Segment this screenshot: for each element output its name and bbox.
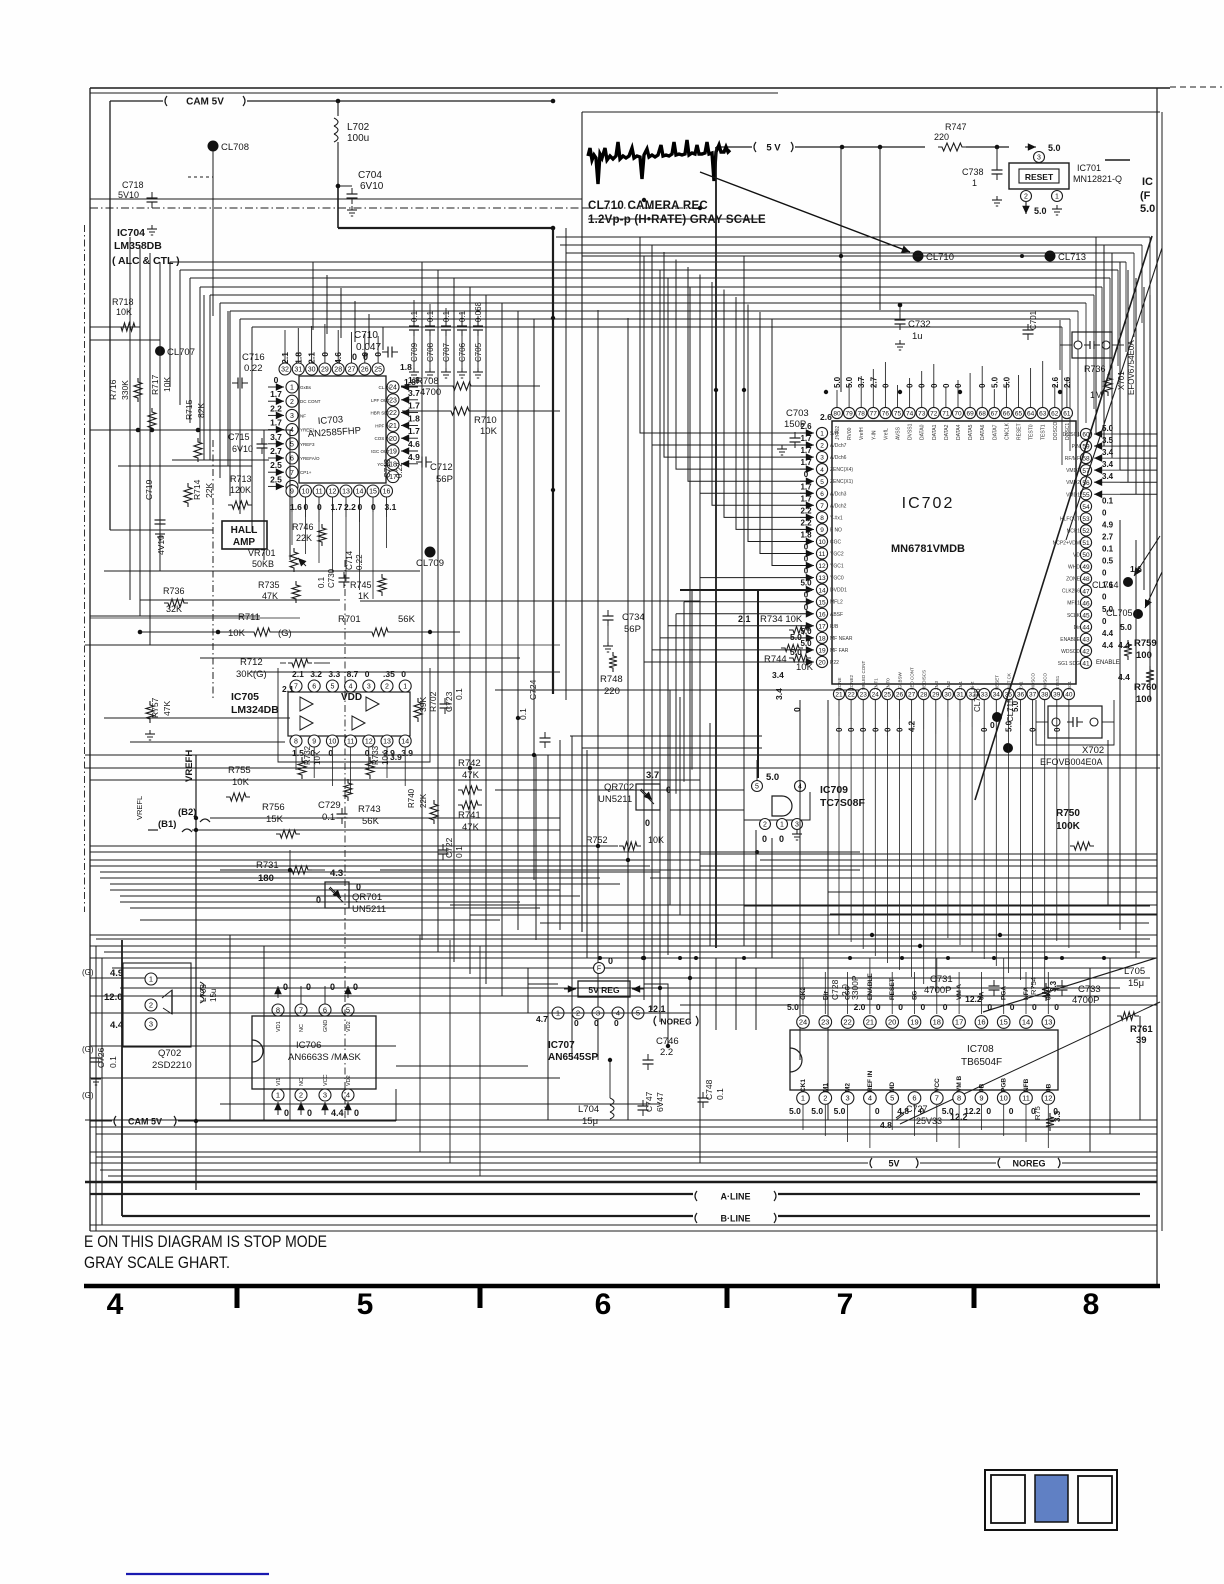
svg-text:5.0: 5.0 [1034,206,1047,216]
svg-text:0: 0 [358,502,363,512]
svg-text:3.4: 3.4 [1102,472,1114,481]
svg-text:C701: C701 [1029,310,1038,330]
svg-text:R711: R711 [238,612,260,623]
svg-text:0: 0 [804,555,809,564]
svg-text:56P: 56P [436,474,453,485]
resistor R748 [609,652,617,672]
IC U IC706 body [252,1016,376,1089]
svg-text:3.9: 3.9 [401,748,413,758]
svg-text:14: 14 [818,587,826,594]
svg-text:3.2: 3.2 [310,669,322,679]
wire IC702 bottom drops [838,716,840,935]
svg-text:IC705: IC705 [231,691,259,703]
svg-text:0B: 0B [1045,1083,1052,1092]
svg-text:2: 2 [385,684,389,691]
svg-text:12: 12 [818,563,826,570]
svg-text:25: 25 [374,367,382,374]
svg-text:3: 3 [149,1020,153,1029]
svg-text:A/Dch7: A/Dch7 [830,443,847,449]
svg-text:PGB: PGB [1001,1078,1008,1092]
svg-text:L702: L702 [347,122,370,133]
svg-text:120K: 120K [230,485,251,495]
svg-text:100u: 100u [347,133,369,144]
svg-text:0: 0 [942,383,951,388]
svg-text:0: 0 [898,1002,903,1012]
svg-text:2: 2 [290,399,294,406]
svg-text:55: 55 [1082,492,1090,499]
svg-text:VCC: VCC [323,1074,329,1086]
svg-text:4: 4 [820,467,824,474]
svg-text:VM A: VM A [956,984,963,1000]
svg-text:15μ: 15μ [582,1116,598,1127]
svg-text:VR701: VR701 [248,548,276,558]
svg-text:SG1: SG1 [1067,680,1072,690]
svg-text:67: 67 [991,411,999,418]
svg-text:CK1: CK1 [800,1079,807,1092]
svg-text:MF FAR: MF FAR [830,648,849,654]
svg-text:2: 2 [823,1094,827,1103]
svg-text:10K: 10K [480,426,498,437]
svg-text:1.8: 1.8 [400,362,412,372]
IC U IC708 body [790,1030,1058,1090]
capacitor C712 [421,457,423,468]
svg-text:0.1: 0.1 [426,310,435,322]
wire dash-dot rail [90,207,582,209]
svg-text:0: 0 [645,818,650,828]
wire x702 frame [1036,721,1048,723]
svg-text:2.1: 2.1 [292,669,304,679]
svg-text:-GLBSW: -GLBSW [898,671,903,690]
svg-text:DVDD1: DVDD1 [830,588,847,594]
svg-text:R734 10K: R734 10K [760,614,803,625]
svg-text:13: 13 [342,489,350,496]
svg-text:9: 9 [312,739,316,746]
svg-text:C712: C712 [430,462,453,473]
svg-text:C748: C748 [704,1079,714,1100]
svg-text:(F: (F [1140,190,1151,202]
svg-text:8.7: 8.7 [347,669,359,679]
svg-text:ZONE: ZONE [1066,577,1081,583]
svg-text:10K: 10K [232,777,250,788]
svg-text:C738: C738 [962,167,984,177]
svg-text:3.7: 3.7 [857,376,866,388]
svg-text:A/Dch3: A/Dch3 [830,491,847,497]
svg-text:19: 19 [910,1018,918,1027]
svg-text:4.6: 4.6 [408,439,420,449]
svg-text:0: 0 [875,1106,880,1116]
svg-text:C705: C705 [474,342,483,362]
svg-text:30K(G): 30K(G) [236,669,267,680]
svg-text:46: 46 [1082,600,1090,607]
svg-text:0: 0 [1102,617,1107,626]
svg-text:47: 47 [1082,588,1090,595]
footer blue underline [126,1573,269,1575]
wire center-mid rails [570,735,762,737]
svg-text:C710: C710 [354,330,378,341]
svg-text:0: 0 [365,669,370,679]
svg-text:3: 3 [367,684,371,691]
svg-text:52: 52 [1082,528,1090,535]
svg-text:16: 16 [383,489,391,496]
svg-text:4V10: 4V10 [156,535,166,555]
svg-text:MFL2: MFL2 [830,600,843,606]
svg-text:R712: R712 [240,657,263,668]
svg-text:3: 3 [795,822,799,829]
svg-text:53: 53 [1082,516,1090,523]
svg-text:5.0: 5.0 [787,1002,799,1012]
transistor Q702 [123,963,191,1047]
svg-text:DATA7: DATA7 [992,424,998,440]
svg-text:3: 3 [290,413,294,420]
svg-text:44: 44 [1082,624,1090,631]
IC U IC702 body [832,421,1076,684]
svg-text:7: 7 [290,470,294,477]
svg-text:17: 17 [955,1018,963,1027]
svg-text:AN2585FHP: AN2585FHP [307,425,361,440]
svg-text:2SD2210: 2SD2210 [152,1060,192,1071]
svg-text:LED CONT: LED CONT [910,667,915,690]
svg-text:MN12821-Q: MN12821-Q [1073,174,1122,184]
svg-text:REDISCS: REDISCS [922,670,927,690]
transistor QR702 [636,784,660,810]
svg-text:RESET: RESET [889,978,896,1000]
svg-text:13: 13 [383,739,391,746]
svg-text:0: 0 [986,1106,991,1116]
svg-text:24: 24 [799,1018,807,1027]
wire staircase to IC702 [640,237,812,433]
svg-text:6V10: 6V10 [232,444,253,454]
svg-text:22K: 22K [296,533,312,543]
svg-text:R750: R750 [1056,808,1080,819]
svg-text:0.22: 0.22 [244,363,263,374]
svg-text:0.5: 0.5 [1102,557,1114,566]
svg-text:0: 0 [881,383,890,388]
svg-text:61: 61 [1063,411,1071,418]
svg-text:2.6: 2.6 [1063,376,1072,388]
svg-text:R/B: R/B [830,624,839,630]
svg-text:MD: MD [889,1082,896,1092]
svg-text:VREFL: VREFL [135,796,144,820]
svg-text:ZONE2: ZONE2 [849,674,854,690]
svg-text:39: 39 [1136,1035,1147,1046]
svg-text:150P: 150P [784,419,806,430]
wire thick net from L702 [337,186,339,228]
IC703 right pins [387,381,399,393]
svg-text:26: 26 [896,692,904,699]
IC706 bottom pins [272,1089,284,1101]
wire bus band right [640,236,1150,238]
svg-text:2.0: 2.0 [854,1002,866,1012]
wire bus left drops [169,262,171,387]
svg-text:19: 19 [389,449,397,456]
svg-text:22: 22 [389,410,397,417]
svg-text:15K: 15K [266,814,284,825]
net NOREG ic707 [654,1016,656,1026]
svg-text:1.7: 1.7 [270,418,282,428]
resistor R741 [458,801,482,809]
svg-text:68: 68 [979,411,987,418]
wire mid-left drops [212,440,214,700]
svg-text:5.0: 5.0 [790,632,802,642]
svg-text:5V REG: 5V REG [588,985,620,995]
IC706 top pins [272,1004,284,1016]
svg-text:20: 20 [389,436,397,443]
svg-text:AVSS: AVSS [896,426,902,440]
svg-text:2: 2 [299,1091,303,1100]
svg-text:0.047: 0.047 [356,342,381,353]
svg-text:VCC: VCC [934,1078,941,1092]
svg-text:5.0: 5.0 [845,376,854,388]
svg-text:CL713: CL713 [1058,252,1086,263]
svg-text:YGC0: YGC0 [830,576,844,582]
svg-text:R747: R747 [945,122,967,132]
svg-text:ZM1: ZM1 [958,681,963,690]
svg-text:2: 2 [763,822,767,829]
svg-text:10: 10 [302,489,310,496]
svg-text:QR701: QR701 [352,892,382,903]
svg-text:19: 19 [818,648,826,655]
svg-text:3.4: 3.4 [772,670,784,680]
svg-text:VI1: VI1 [276,1078,282,1086]
svg-text:11: 11 [1022,1094,1030,1103]
svg-text:4.4: 4.4 [1102,641,1114,650]
svg-text:5.0: 5.0 [1048,143,1061,153]
svg-text:0: 0 [804,470,809,479]
svg-text:0: 0 [274,375,279,385]
svg-text:8: 8 [1083,1288,1100,1321]
svg-text:VD1: VD1 [276,1021,282,1032]
wire center-mid verticals [535,755,537,940]
svg-text:R735: R735 [258,580,280,590]
svg-text:5.0: 5.0 [800,639,812,648]
IC708 bottom pins [797,1092,810,1105]
svg-text:ABSF: ABSF [830,612,843,618]
svg-text:64: 64 [1027,411,1035,418]
wire under-ic706 rails [396,1065,528,1067]
svg-text:DOSC1: DOSC1 [1063,432,1080,438]
svg-text:SG: SG [912,991,919,1000]
svg-text:C703: C703 [786,408,809,419]
IC703 top pins [279,363,291,375]
svg-text:ZONE: ZONE [837,677,842,690]
svg-text:CL708: CL708 [221,142,249,153]
gate IC709 [752,781,763,792]
svg-text:8: 8 [957,1094,961,1103]
svg-text:24: 24 [872,692,880,699]
node CL713 [1045,251,1056,262]
svg-text:CL710 CAMERA REC: CL710 CAMERA REC [588,200,708,212]
svg-text:RESET: RESET [1017,423,1023,440]
svg-text:0: 0 [943,1002,948,1012]
svg-text:M1: M1 [822,1083,829,1092]
svg-text:R748: R748 [600,674,623,685]
wire right inner border [1161,112,1163,1231]
svg-text:NC: NC [299,1024,305,1032]
net 5V bottom [90,1162,868,1164]
svg-text:R741: R741 [458,810,481,821]
svg-text:0.1: 0.1 [317,576,326,588]
svg-text:1.8: 1.8 [293,352,303,364]
svg-text:DATA0: DATA0 [920,424,926,440]
svg-text:R743: R743 [358,804,381,815]
svg-text:24: 24 [389,385,397,392]
svg-text:56P: 56P [624,624,641,635]
svg-text:RF/MF: RF/MF [1065,456,1080,462]
svg-text:COS IN: COS IN [374,436,390,441]
svg-text:1.2Vp-p (H•RATE) GRAY SCALE: 1.2Vp-p (H•RATE) GRAY SCALE [588,214,766,226]
svg-text:L704: L704 [578,1104,599,1115]
svg-text:WDSCD: WDSCD [1061,649,1080,655]
svg-text:0: 0 [835,727,844,732]
svg-text:UN5211: UN5211 [598,794,632,805]
node CL707 [155,346,165,356]
svg-text:DATA6: DATA6 [980,424,986,440]
svg-text:3.1: 3.1 [385,502,397,512]
svg-text:2.0: 2.0 [840,984,850,996]
svg-text:45: 45 [1082,612,1090,619]
svg-text:0: 0 [320,352,330,357]
svg-text:6: 6 [595,1288,612,1321]
svg-text:23: 23 [821,1018,829,1027]
svg-text:18: 18 [818,635,826,642]
svg-text:AN6545SP: AN6545SP [548,1052,598,1063]
svg-text:0: 0 [284,1108,289,1118]
svg-text:0.1: 0.1 [410,310,419,322]
svg-text:77: 77 [870,411,878,418]
svg-text:0: 0 [1009,1106,1014,1116]
svg-text:11: 11 [819,551,826,558]
svg-text:20: 20 [888,1018,896,1027]
svg-text:ZMT1: ZMT1 [873,678,878,690]
svg-text:0: 0 [871,727,880,732]
svg-text:6: 6 [290,456,294,463]
svg-text:3300P: 3300P [850,975,860,1000]
svg-text:TC7S08F: TC7S08F [820,797,866,809]
wire mid rail 632 [140,631,250,633]
svg-text:R752: R752 [586,835,608,845]
svg-text:1.7: 1.7 [800,494,812,503]
net CAM 5V bottom [114,1116,116,1126]
svg-text:LPF OUT: LPF OUT [371,398,390,403]
wire mid rails [85,754,1160,756]
svg-text:29: 29 [932,692,940,699]
svg-text:R714: R714 [192,479,202,500]
svg-text:NF: NF [300,413,306,418]
svg-text:69: 69 [966,411,974,418]
svg-text:C734: C734 [622,612,645,623]
wire right pin leads [1120,433,1157,435]
svg-text:2: 2 [1024,194,1028,201]
svg-text:15: 15 [818,599,826,606]
svg-text:DATA2: DATA2 [944,424,950,440]
svg-text:MFL1: MFL1 [1067,601,1080,607]
svg-text:7: 7 [935,1094,939,1103]
svg-text:DVSS1: DVSS1 [908,423,914,440]
svg-text:R736: R736 [163,586,185,596]
svg-text:0: 0 [779,834,784,844]
capacitor C734 [603,615,614,617]
IC U IC707 5V REG [594,963,605,974]
svg-text:EFOVB004E0A: EFOVB004E0A [1040,757,1103,767]
svg-text:Dir: Dir [1074,625,1081,631]
net CAM 5V top [110,100,163,102]
nav box frame [985,1470,1117,1530]
svg-text:12: 12 [329,489,337,496]
wire diagonal long [975,236,1152,800]
svg-text:0B: 0B [978,1083,985,1092]
svg-text:S/H: S/H [830,431,839,437]
svg-text:5.0: 5.0 [1011,700,1020,712]
wire mid-left loops [90,429,290,431]
svg-text:4: 4 [868,1094,872,1103]
svg-text:75: 75 [894,411,902,418]
svg-text:IC701: IC701 [1077,163,1101,173]
svg-text:0: 0 [594,1018,599,1028]
svg-text:10K: 10K [162,377,172,392]
svg-text:15u: 15u [209,989,218,1002]
svg-text:0: 0 [930,383,939,388]
svg-text:16: 16 [977,1018,985,1027]
IC U IC701 reset [1009,163,1069,189]
svg-text:32: 32 [281,367,289,374]
wire bus band [556,236,640,238]
wire lower rails2 [90,859,700,861]
svg-text:7: 7 [837,1288,854,1321]
svg-text:1: 1 [820,431,824,438]
svg-text:R755: R755 [228,765,251,776]
svg-text:CL710: CL710 [926,252,954,263]
svg-text:0.1: 0.1 [715,1088,725,1100]
resistor R710 [447,407,473,415]
svg-text:0.22: 0.22 [395,462,404,478]
wire bus ic703 corner drops [312,262,314,330]
svg-text:R761: R761 [1130,1024,1153,1035]
svg-text:2: 2 [820,443,824,450]
wire bottom area verticals [229,935,231,1121]
svg-text:21: 21 [866,1018,874,1027]
wire diagonal lower [983,958,1156,1012]
svg-text:2.2: 2.2 [270,403,282,413]
svg-text:R717: R717 [150,374,160,395]
svg-text:VMD1: VMD1 [1066,492,1080,498]
wire right-edge verticals [1095,237,1097,433]
svg-text:MF NEAR: MF NEAR [830,636,853,642]
resistor R744 [781,645,803,652]
svg-text:0.1: 0.1 [1102,545,1114,554]
svg-text:18: 18 [933,1018,941,1027]
svg-text:11: 11 [347,739,354,746]
node CL708 [208,141,219,152]
svg-text:4: 4 [349,684,353,691]
svg-text:40: 40 [1065,692,1073,699]
svg-text:PGA: PGA [1001,986,1008,1000]
svg-text:3.9: 3.9 [390,752,402,762]
svg-text:1: 1 [801,1094,805,1103]
svg-text:2.2: 2.2 [344,502,356,512]
wire left dash-dot border [84,225,86,912]
svg-text:HPF IN: HPF IN [375,423,390,428]
svg-text:3: 3 [846,1094,850,1103]
svg-text:VD: VD [1073,553,1080,559]
svg-text:41: 41 [1082,661,1090,668]
svg-text:1: 1 [1055,194,1059,201]
svg-text:R701: R701 [338,614,361,625]
svg-text:10K: 10K [648,835,664,845]
svg-text:0.1: 0.1 [454,688,464,700]
svg-text:0.068: 0.068 [474,301,483,322]
IC705 bottom pins [290,735,302,747]
svg-text:22: 22 [843,1018,851,1027]
